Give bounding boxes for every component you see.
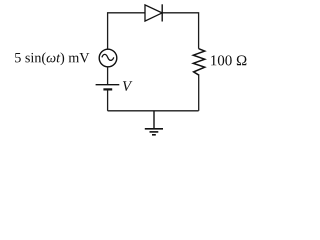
value label: V for battery V1 — [123, 81, 132, 91]
value label: 100 ohm for resistor R1 — [211, 55, 246, 65]
AC source VS1 (sinusoidal source) — [99, 49, 117, 67]
wire: resistor bottom to bottom rail — [198, 75, 200, 111]
diode D1 — [145, 4, 162, 21]
battery V1 (DC source) — [96, 85, 120, 90]
resistor R1 — [193, 49, 204, 76]
wire: bottom rail (ground net) — [108, 110, 199, 112]
wire: node A (source top) to diode anode — [108, 13, 145, 49]
wire: diode cathode to resistor top — [162, 13, 198, 49]
wire: between source and battery — [107, 67, 109, 85]
value label: 5 sin(wt) mV for source VS1 — [15, 52, 89, 65]
wire: battery negative to bottom rail — [107, 90, 109, 111]
ground — [145, 111, 163, 135]
